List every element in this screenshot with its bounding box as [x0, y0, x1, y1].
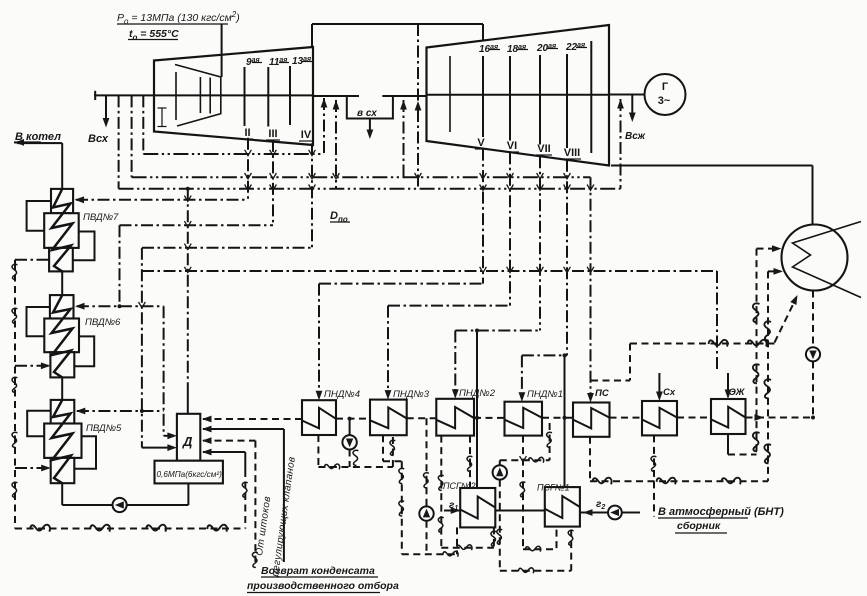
- svg-text:ПВД№5: ПВД№5: [86, 423, 122, 434]
- svg-text:ПНД№3: ПНД№3: [393, 389, 430, 400]
- svg-text:Д: Д: [182, 434, 193, 449]
- svg-text:II: II: [244, 127, 250, 139]
- svg-text:Всх: Всх: [88, 133, 109, 145]
- svg-text:VIII: VIII: [564, 147, 581, 159]
- svg-text:ПНД№1: ПНД№1: [527, 389, 563, 400]
- svg-text:В котел: В котел: [15, 131, 61, 143]
- svg-text:От штоков: От штоков: [254, 495, 273, 556]
- svg-text:III: III: [268, 128, 277, 140]
- svg-text:ПС: ПС: [595, 388, 609, 399]
- svg-text:г2: г2: [596, 499, 605, 511]
- svg-text:ПСГ№2: ПСГ№2: [443, 481, 476, 491]
- svg-text:производственного отбора: производственного отбора: [247, 580, 399, 592]
- svg-text:ПВД№6: ПВД№6: [85, 317, 121, 328]
- svg-text:ПНД№4: ПНД№4: [324, 389, 360, 400]
- svg-text:ЭЖ: ЭЖ: [729, 387, 746, 398]
- svg-text:ПНД№2: ПНД№2: [459, 388, 496, 399]
- svg-text:0,6МПа(6кгс/см²): 0,6МПа(6кгс/см²): [157, 470, 223, 479]
- svg-text:IV: IV: [301, 129, 312, 141]
- svg-text:Всж: Всж: [625, 131, 646, 142]
- svg-text:ПСГ№1: ПСГ№1: [537, 483, 570, 493]
- svg-text:V: V: [477, 137, 485, 149]
- svg-text:3~: 3~: [658, 95, 671, 107]
- svg-text:Г: Г: [662, 81, 669, 93]
- svg-text:VI: VI: [507, 140, 517, 152]
- svg-text:Сх: Сх: [663, 387, 676, 398]
- svg-text:ПВД№7: ПВД№7: [83, 212, 119, 223]
- svg-text:VII: VII: [537, 143, 550, 155]
- svg-text:В атмосферный (БНТ): В атмосферный (БНТ): [658, 506, 784, 518]
- svg-text:сборник: сборник: [677, 520, 721, 532]
- svg-text:в сх: в сх: [357, 108, 377, 119]
- svg-text:г1: г1: [449, 500, 458, 512]
